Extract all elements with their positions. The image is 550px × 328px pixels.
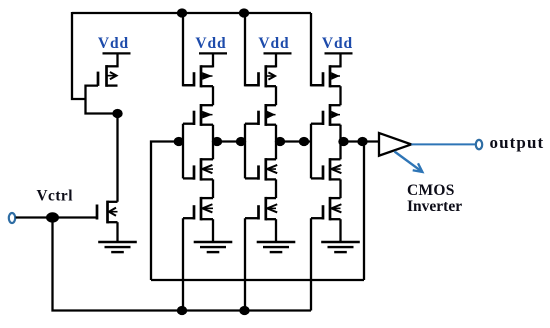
wire: M8 drain to output node [275, 125, 277, 142]
wire: M1 gate-drain loop [86, 86, 117, 114]
wire: stage1 output to stage2 input [213, 140, 245, 142]
wire: stage 3 input gate rail [310, 124, 312, 179]
power Vdd bar (stage 2) [264, 52, 292, 54]
wire: M10 source to ground [275, 219, 277, 242]
wire: M6 source to ground [212, 219, 214, 242]
wire: stage3 output to inverter U1 input [341, 140, 380, 142]
junction dot: Vctrl bus at stage 1 [177, 306, 187, 315]
wire: Vdd stem to M3 source [212, 53, 214, 67]
wire: M12 drain to output node [339, 125, 341, 142]
wire: M13 source to M14 drain [339, 179, 341, 198]
wire: left bias wire from rail down to mirror node [72, 12, 86, 99]
wire: M1 drain down to M2 drain [116, 114, 118, 202]
junction dot: Vctrl node [46, 212, 59, 222]
wire: M3 drain to M4 source [212, 86, 214, 105]
wire: M11 drain to M12 source [339, 86, 341, 105]
annotation label: CMOS Inverter [407, 182, 462, 215]
wire: M14 source to ground [339, 219, 341, 242]
svg-text:output: output [490, 133, 545, 152]
transistor M3 stage-1 current-source PMOS [183, 65, 213, 87]
wire: M5 source to M6 drain [212, 179, 214, 198]
junction dot: feedback tap node [357, 137, 367, 146]
transistor M12 stage-3 inverter PMOS [311, 104, 341, 126]
wire: mirror rail drop to stage 2 [245, 13, 259, 85]
transistor M2 bias NMOS (Vctrl) [97, 201, 118, 224]
ground (bias) [98, 242, 137, 252]
wire: Vctrl terminal to M2 gate [16, 216, 97, 218]
wire: M2 source to ground [116, 222, 118, 242]
ground (stage 1) [194, 242, 233, 252]
svg-text:Vctrl: Vctrl [37, 187, 73, 204]
wire: feedback from tap down to return line [363, 142, 365, 281]
junction dot: stage 3 input node [299, 137, 309, 146]
wire: output node down to M5 drain [212, 142, 214, 160]
transistor M6 stage-1 current-sink NMOS [183, 197, 213, 221]
svg-text:CMOS: CMOS [407, 182, 455, 199]
junction dot: mirror rail at stage 2 [239, 8, 249, 17]
junction dot: stage 2 output node [275, 137, 285, 146]
node output label [490, 133, 545, 152]
svg-text:Vdd: Vdd [322, 35, 353, 52]
wire: output node down to M9 drain [275, 142, 277, 160]
wire: stage 2 tail gate down to Vctrl bus [244, 218, 246, 310]
node Vctrl label [37, 187, 73, 204]
wire: Vdd stem to M11 source [339, 53, 341, 67]
junction dot: bias mirror node [112, 109, 122, 118]
terminal: output port [476, 140, 482, 149]
transistor M7 stage-2 current-source PMOS [245, 65, 276, 87]
wire: Vdd stem to M7 source [275, 53, 277, 67]
wire: stage 3 tail gate down to Vctrl bus [310, 218, 312, 310]
transistor M8 stage-2 inverter PMOS [245, 104, 276, 126]
wire: PMOS mirror gate rail (top) [72, 12, 311, 14]
junction dot: mirror rail at stage 1 [177, 8, 187, 17]
op-amp U1 CMOS inverter buffer [379, 133, 411, 156]
wire: U1 output to output terminal (blue) [411, 143, 476, 145]
power Vdd bar (stage 3) [325, 52, 353, 54]
ground (stage 2) [257, 242, 296, 252]
power Vdd bar (stage 1) [199, 52, 227, 54]
wire: mirror rail drop to stage 1 [183, 13, 194, 85]
wire: feedback return line [151, 279, 364, 281]
wire: stage 1 input gate rail [182, 124, 184, 179]
wire: stage 2 input gate rail [244, 124, 246, 179]
power Vdd label (bias) [98, 35, 129, 52]
transistor M1 bias diode-connected PMOS [98, 65, 118, 87]
junction dot: stage 3 output node [338, 137, 348, 146]
wire: Vctrl node down and along bottom to tail gates [53, 218, 312, 311]
wire: M9 source to M10 drain [275, 179, 277, 198]
transistor M14 stage-3 current-sink NMOS [311, 197, 341, 221]
transistor M4 stage-1 inverter PMOS [183, 104, 213, 126]
junction dot: Vctrl bus at stage 2 [239, 306, 249, 315]
junction dot: stage 2 input node [236, 137, 246, 146]
transistor M10 stage-2 current-sink NMOS [245, 197, 277, 221]
svg-text:Vdd: Vdd [195, 35, 226, 52]
transistor M13 stage-3 inverter NMOS [311, 158, 341, 181]
annotation arrow to CMOS inverter (blue) [395, 152, 423, 173]
wire: M4 drain to output node [212, 125, 214, 142]
transistor M9 stage-2 inverter NMOS [245, 158, 277, 181]
power Vdd label (stage 2) [258, 35, 289, 52]
transistor M5 stage-1 inverter NMOS [183, 158, 213, 181]
junction dot: stage 1 output node [212, 137, 222, 146]
wire: stage 1 tail gate down to Vctrl bus [182, 218, 184, 310]
svg-text:Vdd: Vdd [258, 35, 289, 52]
ground (stage 3) [321, 242, 360, 252]
wire: output node down to M13 drain [339, 142, 341, 160]
wire: M7 drain to M8 source [275, 86, 277, 105]
terminal: Vctrl input port [9, 213, 15, 223]
transistor M11 stage-3 current-source PMOS [311, 65, 341, 87]
svg-text:Vdd: Vdd [98, 35, 129, 52]
junction dot: stage 1 input node [174, 137, 184, 146]
wire: feedback up to stage 1 input [151, 142, 183, 281]
wire: mirror rail drop to stage 3 [311, 13, 323, 85]
svg-text:Inverter: Inverter [407, 198, 462, 215]
power Vdd label (stage 1) [195, 35, 226, 52]
power Vdd bar (bias) [103, 52, 131, 54]
wire: stage2 output to stage3 input [276, 140, 311, 142]
wire: Vdd stem to M1 source [116, 53, 118, 67]
power Vdd label (stage 3) [322, 35, 353, 52]
